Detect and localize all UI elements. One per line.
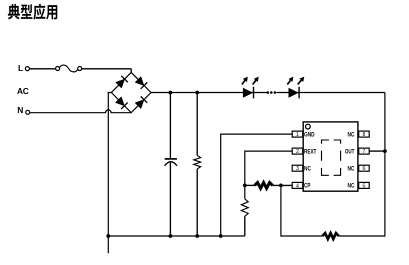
svg-text:NC: NC <box>348 165 355 172</box>
svg-text:6: 6 <box>362 166 365 172</box>
svg-text:L: L <box>18 63 23 73</box>
svg-text:N: N <box>17 105 23 115</box>
svg-text:8: 8 <box>362 132 365 138</box>
svg-text:3: 3 <box>296 166 299 172</box>
svg-text:2: 2 <box>296 149 299 155</box>
svg-text:NC: NC <box>304 165 311 172</box>
svg-text:GND: GND <box>304 131 315 138</box>
svg-text:REXT: REXT <box>304 148 317 155</box>
svg-text:CP: CP <box>304 183 310 190</box>
svg-text:NC: NC <box>348 183 355 190</box>
svg-text:NC: NC <box>348 131 355 138</box>
svg-text:OUT: OUT <box>345 148 355 155</box>
svg-text:AC: AC <box>17 86 29 96</box>
svg-text:4: 4 <box>296 183 299 189</box>
svg-text:7: 7 <box>362 149 365 155</box>
svg-text:1: 1 <box>296 132 299 138</box>
svg-text:5: 5 <box>362 183 365 189</box>
